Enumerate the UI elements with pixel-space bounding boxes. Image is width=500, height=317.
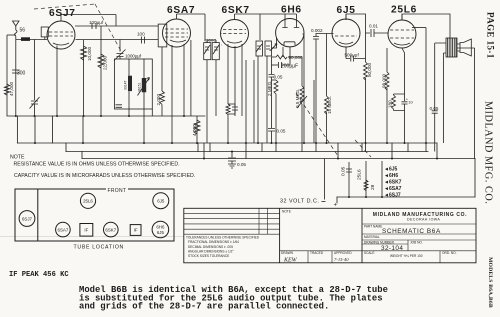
svg-text:KEW: KEW — [283, 258, 298, 264]
svg-text:6SJ7: 6SJ7 — [22, 216, 33, 221]
svg-text:6SK7: 6SK7 — [105, 227, 116, 232]
svg-text:TOLERANCES UNLESS OTHERWISE SP: TOLERANCES UNLESS OTHERWISE SPECIFIED — [186, 236, 260, 240]
svg-text:0.05: 0.05 — [341, 166, 347, 176]
svg-text:NOTE: NOTE — [282, 209, 291, 213]
svg-text:◄6H6: ◄6H6 — [384, 173, 398, 179]
svg-text:0.05: 0.05 — [430, 106, 439, 111]
svg-text:0.002: 0.002 — [311, 28, 323, 33]
svg-text:◄6SK7: ◄6SK7 — [384, 180, 402, 186]
svg-text:10,000: 10,000 — [87, 47, 92, 61]
svg-text:50,000: 50,000 — [367, 63, 372, 77]
svg-text:28: 28 — [370, 184, 376, 190]
svg-text:DECORAH IOWA: DECORAH IOWA — [407, 218, 440, 222]
svg-text:TRACED: TRACED — [310, 251, 324, 255]
svg-text:15 MEG.: 15 MEG. — [327, 96, 332, 114]
svg-text:6H6: 6H6 — [156, 225, 165, 230]
svg-text:33147: 33147 — [124, 80, 128, 90]
svg-text:0.05: 0.05 — [237, 162, 246, 167]
svg-text:22,000: 22,000 — [103, 56, 108, 70]
svg-text:10: 10 — [408, 100, 413, 105]
svg-text:6J5: 6J5 — [157, 199, 165, 204]
svg-text:0.5 MEG.: 0.5 MEG. — [295, 89, 300, 108]
svg-text:and grids of the 28-D-7 are pa: and grids of the 28-D-7 are parallel con… — [79, 302, 329, 312]
svg-text:25L6: 25L6 — [83, 199, 93, 204]
svg-text:WEIGHT ½¼ PER 100: WEIGHT ½¼ PER 100 — [390, 254, 423, 258]
svg-text:MODELS B6A,B6B: MODELS B6A,B6B — [487, 257, 493, 308]
svg-text:36151: 36151 — [138, 82, 142, 92]
svg-text:JOB NO.: JOB NO. — [410, 241, 423, 245]
svg-text:FRONT: FRONT — [108, 188, 127, 194]
svg-text:456KC: 456KC — [204, 38, 216, 43]
svg-text:0.05: 0.05 — [277, 129, 286, 134]
svg-text:56: 56 — [20, 28, 26, 34]
svg-text:IF: IF — [84, 228, 88, 233]
svg-text:NOTE: NOTE — [10, 155, 25, 161]
svg-text:7-15-40: 7-15-40 — [334, 257, 349, 262]
svg-text:1000μμf: 1000μμf — [125, 53, 142, 58]
svg-text:FRACTIONAL DIMENSIONS ± 1/64: FRACTIONAL DIMENSIONS ± 1/64 — [188, 240, 239, 244]
svg-text:6J5: 6J5 — [157, 230, 165, 235]
svg-text:ORD. NO.: ORD. NO. — [442, 251, 457, 255]
svg-text:◄6SJ7: ◄6SJ7 — [384, 193, 401, 199]
svg-text:32 VOLT D.C.: 32 VOLT D.C. — [280, 198, 319, 204]
svg-text:IF PEAK 456 KC: IF PEAK 456 KC — [9, 271, 69, 279]
svg-text:6SA7: 6SA7 — [58, 227, 69, 232]
svg-text:100: 100 — [137, 32, 145, 37]
svg-text:DRAWN: DRAWN — [281, 251, 294, 255]
svg-text:4,000: 4,000 — [192, 124, 197, 136]
svg-text:SCHEMATIC B6A: SCHEMATIC B6A — [382, 228, 441, 235]
svg-text:98,000: 98,000 — [382, 74, 387, 88]
svg-text:MIDLAND MFG. CO.: MIDLAND MFG. CO. — [483, 101, 494, 204]
svg-text:300: 300 — [17, 71, 26, 77]
svg-text:47,000: 47,000 — [9, 82, 14, 96]
svg-text:2 MEG.: 2 MEG. — [267, 80, 272, 96]
svg-text:DRAWING NUMBER: DRAWING NUMBER — [364, 241, 395, 245]
svg-text:IF: IF — [134, 228, 138, 233]
svg-text:RESISTANCE VALUE IS IN OHMS UN: RESISTANCE VALUE IS IN OHMS UNLESS OTHER… — [14, 162, 180, 168]
svg-text:200μμF: 200μμF — [281, 64, 298, 70]
svg-text:PART NAME: PART NAME — [364, 225, 382, 229]
svg-text:CAPACITY VALUE IS IN MICROFARA: CAPACITY VALUE IS IN MICROFARADS UNLESS … — [14, 173, 195, 179]
svg-text:+: + — [334, 203, 338, 209]
svg-text:MATERIAL: MATERIAL — [364, 235, 380, 239]
svg-text:180: 180 — [388, 100, 393, 108]
svg-text:100μμf: 100μμf — [89, 20, 104, 25]
svg-text:500μμf: 500μμf — [345, 53, 360, 58]
svg-text:50,000: 50,000 — [289, 55, 303, 60]
svg-text:STOCK SIZES TOLERANCE: STOCK SIZES TOLERANCE — [188, 254, 229, 258]
svg-text:32-104: 32-104 — [381, 245, 403, 252]
svg-text:0.01: 0.01 — [369, 24, 378, 29]
svg-text:◄6J5: ◄6J5 — [384, 167, 398, 173]
svg-text:SCALE: SCALE — [364, 251, 374, 255]
svg-text:ANGULAR DIMENSIONS ± 1/2°: ANGULAR DIMENSIONS ± 1/2° — [188, 249, 234, 253]
svg-text:TUBE LOCATION: TUBE LOCATION — [74, 245, 125, 251]
svg-text:6SJ7: 6SJ7 — [49, 8, 76, 19]
svg-text:◄6SA7: ◄6SA7 — [384, 186, 402, 192]
svg-text:0.05: 0.05 — [274, 75, 283, 80]
svg-text:DECIMAL DIMENSIONS ± .005: DECIMAL DIMENSIONS ± .005 — [188, 245, 233, 249]
svg-text:PAGE 15-1: PAGE 15-1 — [486, 12, 496, 59]
svg-text:2,000: 2,000 — [156, 94, 161, 106]
svg-text:APPROVED: APPROVED — [334, 251, 352, 255]
svg-text:25L6: 25L6 — [357, 169, 363, 180]
